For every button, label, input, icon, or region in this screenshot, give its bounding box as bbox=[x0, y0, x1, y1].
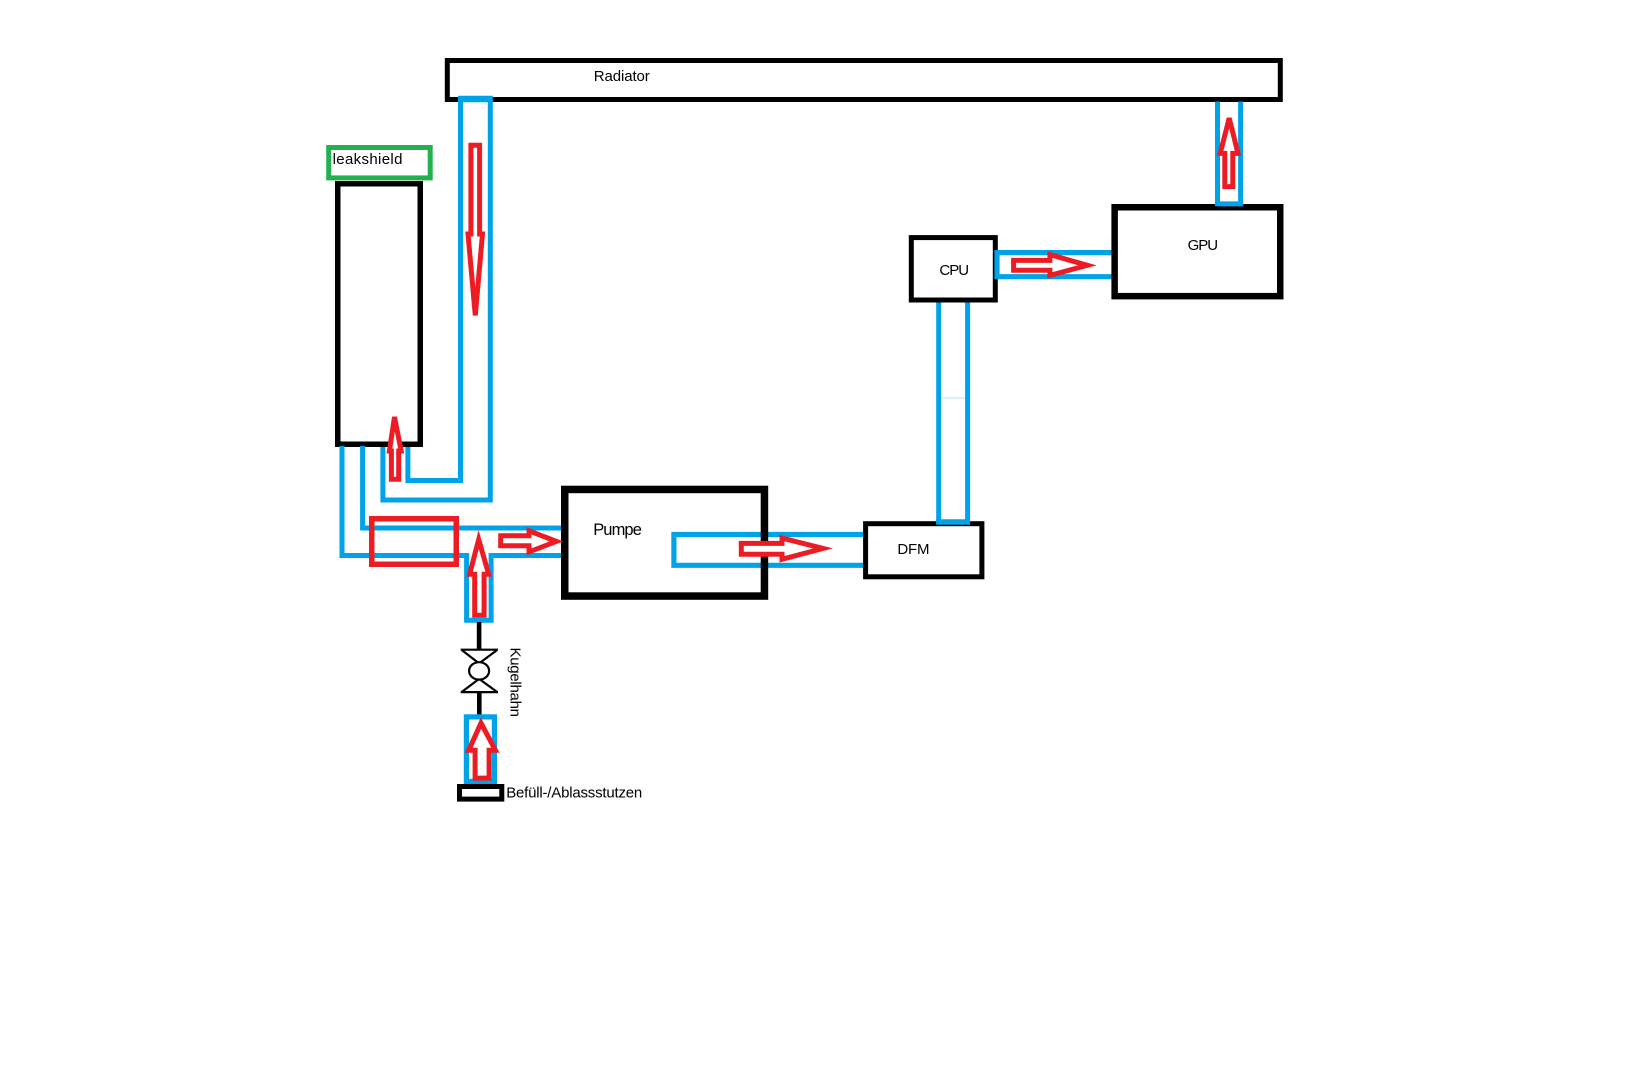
wire: pipe from radiator down and left to leakshield (blue) bbox=[383, 99, 493, 500]
flow arrow up (valve drop pipe) bbox=[470, 540, 489, 616]
wire: pipe from GPU up to radiator (blue) bbox=[1215, 102, 1243, 207]
flow arrow up (fill pipe) bbox=[469, 723, 496, 778]
svg-text:Kugelhahn: Kugelhahn bbox=[507, 648, 524, 717]
svg-text:Radiator: Radiator bbox=[594, 68, 650, 85]
flow arrow right (pump to DFM) bbox=[741, 538, 823, 559]
wire: pipe from CPU to GPU (blue) bbox=[997, 253, 1114, 277]
svg-text:Pumpe: Pumpe bbox=[593, 521, 642, 539]
wire: drop pipe to ball valve (blue) bbox=[464, 553, 494, 620]
valve Kugelhahn (bowtie + ball) bbox=[461, 650, 498, 692]
flow arrow up (GPU to radiator) bbox=[1220, 118, 1238, 187]
leakshield reservoir box (black) bbox=[338, 184, 421, 445]
svg-text:GPU: GPU bbox=[1188, 237, 1218, 254]
wire: pipe from leakshield bottom-left down and right to pump (blue) bbox=[342, 446, 566, 556]
GPU box bbox=[1115, 207, 1281, 296]
svg-text:leakshield: leakshield bbox=[333, 151, 403, 168]
Befuell-/Ablassstutzen port (black) bbox=[460, 785, 643, 802]
pump box (Pumpe) bbox=[565, 489, 765, 596]
wire: black connector above valve bbox=[477, 622, 482, 650]
wire: black connector below valve bbox=[477, 693, 482, 715]
flow arrow up (leakshield bottom) bbox=[389, 417, 401, 479]
wire: pipe from DFM up to CPU (blue) bbox=[936, 302, 970, 522]
flow arrow down (radiator to leakshield pipe) bbox=[468, 145, 483, 315]
CPU box bbox=[911, 238, 995, 300]
flow arrow right (into pump) bbox=[501, 531, 557, 552]
radiator box bbox=[447, 61, 1280, 100]
svg-text:Befüll-/Ablassstutzen: Befüll-/Ablassstutzen bbox=[506, 785, 642, 802]
wire: fill pipe segment (blue) bbox=[466, 717, 494, 782]
wire: pipe from pump to DFM (blue) bbox=[674, 535, 866, 566]
red rectangle (highlight) bbox=[372, 519, 457, 565]
DFM box bbox=[866, 524, 982, 577]
svg-text:CPU: CPU bbox=[939, 262, 968, 279]
svg-text:DFM: DFM bbox=[897, 541, 929, 558]
flow arrow right (CPU to GPU) bbox=[1014, 255, 1088, 276]
leakshield label box (green) bbox=[329, 148, 431, 178]
